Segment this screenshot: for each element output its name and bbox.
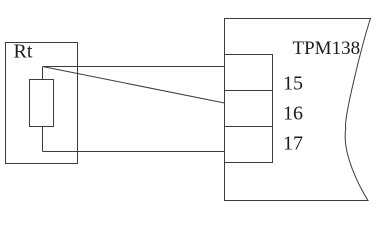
terminal divider 16/17 [225, 126, 273, 128]
wire: resistor bottom lead (node B) [42, 127, 44, 152]
device TPM138 outline (left, top, curved right edge, bottom) [225, 19, 371, 201]
svg-text:ТРМ138: ТРМ138 [293, 38, 361, 59]
wire: node A to terminal 16 (slanted) [43, 67, 225, 104]
sensor box Rt (outline) [6, 43, 78, 164]
terminal block (outer box, pins 15-17) [225, 55, 273, 163]
svg-text:16: 16 [283, 103, 303, 125]
svg-text:15: 15 [283, 73, 303, 95]
wire: node B to terminal 17 [43, 151, 225, 153]
terminal divider 15/16 [225, 90, 273, 92]
resistor Rt (body) [30, 80, 54, 127]
svg-text:17: 17 [283, 133, 303, 155]
wire: node A to terminal 15 [43, 66, 225, 68]
wire: resistor top lead (node A) [42, 67, 44, 80]
svg-text:Rt: Rt [14, 41, 33, 63]
